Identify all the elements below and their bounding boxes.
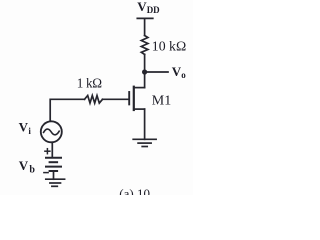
wire resistor R1 bottom to drain node xyxy=(144,54,146,87)
ground (battery) xyxy=(46,179,65,186)
minus sign xyxy=(44,172,48,174)
label M1 xyxy=(152,93,171,108)
svg-text:10 kΩ: 10 kΩ xyxy=(152,38,186,53)
svg-text:Vb: Vb xyxy=(19,158,36,175)
wire source to ground xyxy=(144,109,146,139)
svg-text:Vo: Vo xyxy=(172,64,186,80)
wire node to Vo xyxy=(145,71,168,73)
node dot xyxy=(142,69,147,74)
wire VDD to resistor R1 top xyxy=(144,18,146,35)
wire battery to ground xyxy=(53,171,55,179)
transistor M1 channel bar xyxy=(133,87,135,110)
svg-text:1 kΩ: 1 kΩ xyxy=(77,76,102,91)
svg-text:Vi: Vi xyxy=(19,120,32,136)
svg-text:M1: M1 xyxy=(152,93,171,108)
VDD T-bar xyxy=(137,17,153,19)
battery Vb plates xyxy=(46,158,61,171)
resistor R2 1 kOhm xyxy=(85,96,103,104)
svg-text:(a) 10: (a) 10 xyxy=(119,186,150,195)
wire gate lead with resistor R2 xyxy=(103,98,129,100)
plus sign xyxy=(45,149,50,154)
label Vi xyxy=(19,120,32,136)
ground (transistor source) xyxy=(133,139,156,146)
label VDD xyxy=(137,0,160,15)
label Vb xyxy=(19,158,36,175)
transistor M1 source lead xyxy=(134,108,145,110)
svg-text:VDD: VDD xyxy=(137,0,160,15)
AC source Vi circle xyxy=(41,121,62,142)
resistor R1 10 kOhm xyxy=(141,36,148,55)
AC source sine wave xyxy=(44,129,60,135)
label Vo xyxy=(172,64,186,80)
transistor M1 drain lead xyxy=(134,87,145,89)
wire resistor R2 to corner xyxy=(50,99,84,121)
label 1 kOhm xyxy=(77,76,102,91)
caption (a) xyxy=(119,186,150,201)
transistor M1 gate bar xyxy=(128,92,130,104)
wire Vi to battery xyxy=(51,142,53,157)
label 10 kOhm xyxy=(152,38,186,53)
